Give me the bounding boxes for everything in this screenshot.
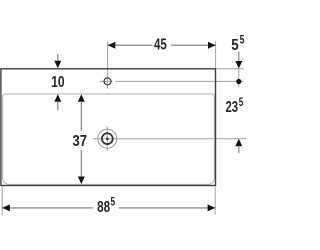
svg-text:23: 23 <box>226 99 239 116</box>
svg-text:5: 5 <box>239 97 244 109</box>
svg-text:37: 37 <box>73 133 88 150</box>
tap hole <box>104 78 111 85</box>
bottom left extension line <box>1 187 3 215</box>
dim 23_5 arrow tail <box>238 146 240 153</box>
dim 37 line upper segment <box>80 102 82 131</box>
svg-text:45: 45 <box>154 37 167 54</box>
dim 37 line lower segment <box>80 150 82 177</box>
svg-text:5: 5 <box>240 35 245 47</box>
svg-text:88: 88 <box>97 199 110 216</box>
drain hole center dot <box>106 137 109 140</box>
extension line left of 45 dim (tap centerline vertical) <box>107 42 109 89</box>
dim 10 up arrow tail <box>57 102 59 111</box>
dim 37 up arrow <box>78 94 85 102</box>
dim 10 down arrow tail <box>57 54 59 61</box>
extension line right of 45 dim <box>215 42 217 69</box>
drain hole inner circle <box>102 133 113 144</box>
svg-text:5: 5 <box>231 37 238 54</box>
top edge extension to right <box>216 68 244 70</box>
washbasin inner bowl outline <box>3 94 215 184</box>
washbasin outer rectangle <box>1 69 216 186</box>
dim 45 line left segment <box>108 44 153 46</box>
dim 88_5 left arrow <box>2 204 10 211</box>
tap hole centerline horizontal left arm <box>99 80 112 82</box>
svg-text:10: 10 <box>51 74 64 91</box>
dim 88_5 right arrow <box>208 204 216 211</box>
svg-text:5: 5 <box>111 197 116 209</box>
dim 5_5/23_5 vertical line through dot <box>238 69 240 87</box>
dim 5_5 arrow tail <box>238 52 240 62</box>
dim 45 left arrow <box>108 42 116 49</box>
drain hole outer circle <box>98 129 117 148</box>
tap hole centerline horizontal long <box>115 80 243 82</box>
dim 10 down arrow <box>54 61 61 69</box>
drain centerline vertical <box>106 126 108 151</box>
dim 88_5 line right segment <box>119 207 216 209</box>
dim 5_5 down arrow <box>235 61 242 69</box>
drain centerline horizontal <box>93 138 247 140</box>
dim 37 down arrow <box>78 177 85 185</box>
bottom right extension line <box>214 187 216 215</box>
dim 88_5 line left segment <box>2 207 93 209</box>
dim endpoint dot <box>236 79 241 84</box>
dim 10 up arrow <box>54 94 61 102</box>
dim 45 right arrow <box>208 42 216 49</box>
dim 45 line right segment <box>171 44 216 46</box>
dim 23_5 up arrow <box>235 139 242 147</box>
